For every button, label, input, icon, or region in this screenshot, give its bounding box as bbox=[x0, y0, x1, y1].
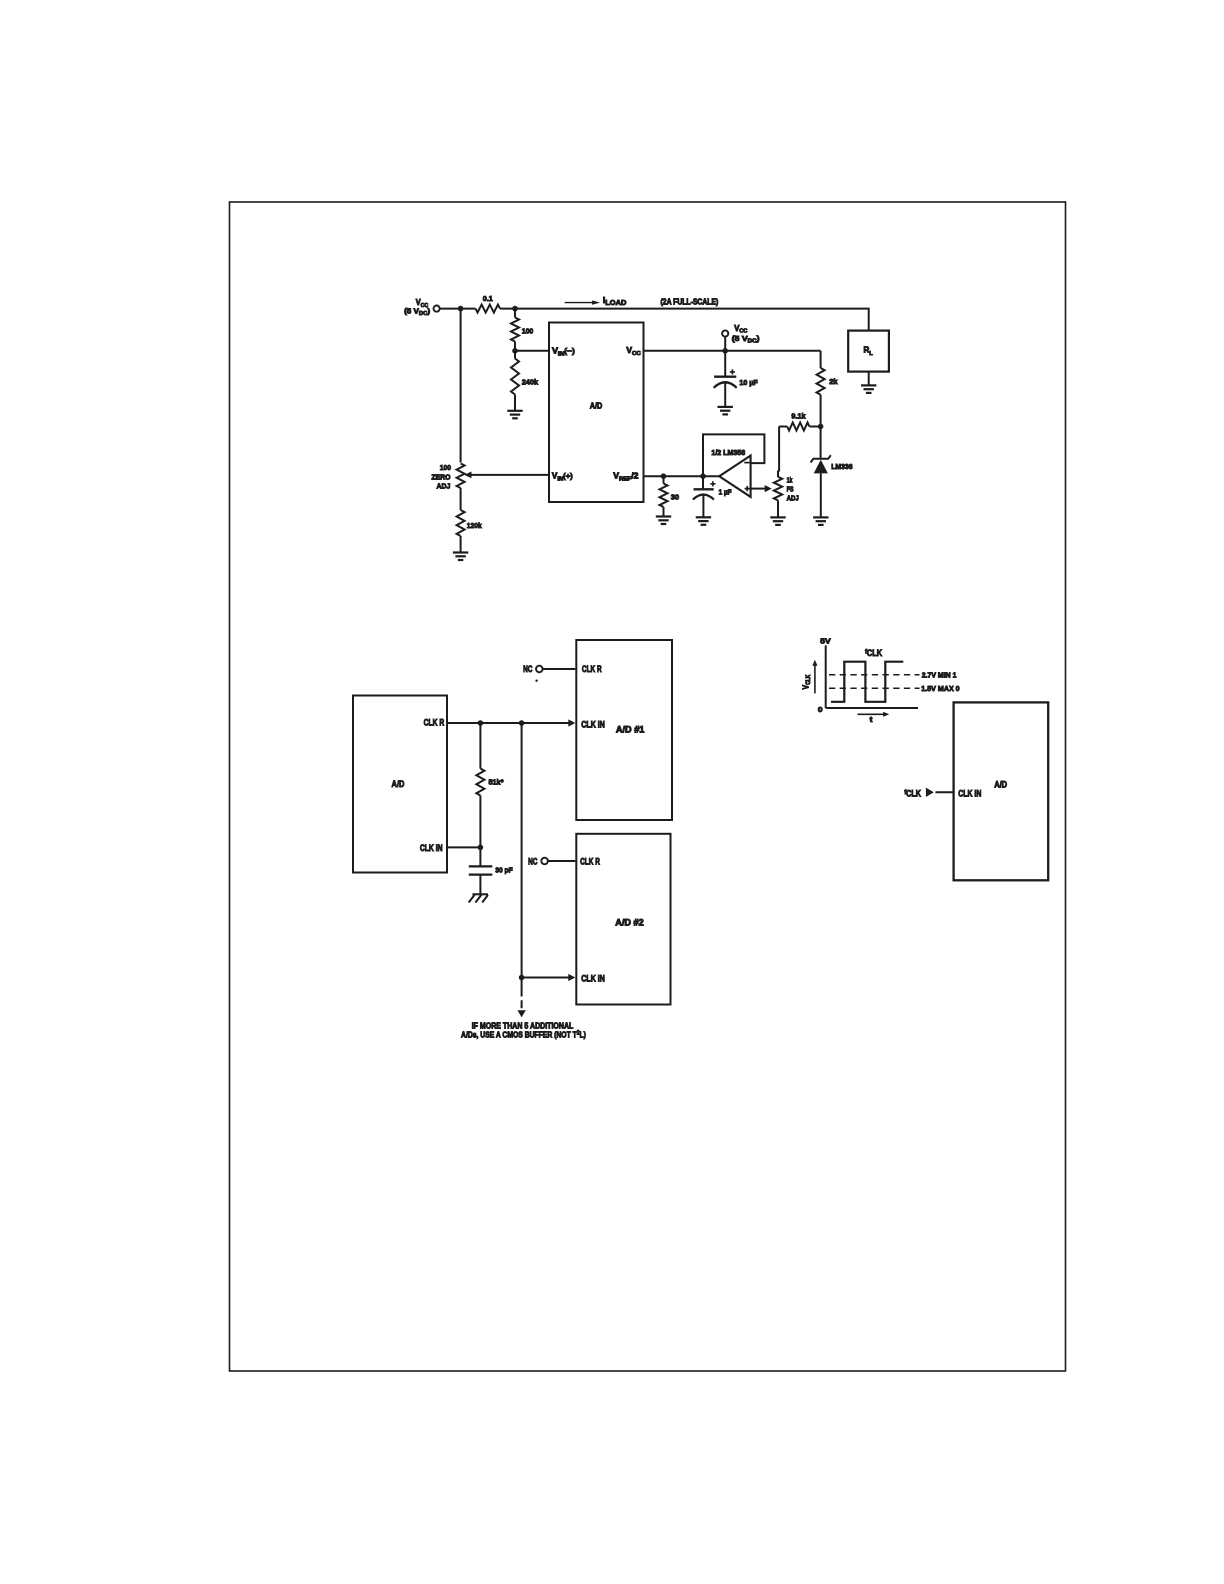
svg-text:CLK IN: CLK IN bbox=[581, 720, 605, 730]
svg-text:LM336: LM336 bbox=[831, 464, 852, 471]
svg-text:51k*: 51k* bbox=[489, 777, 504, 786]
svg-text:NC: NC bbox=[523, 664, 533, 674]
wire op-amp output to VREF/2 bbox=[644, 475, 720, 477]
svg-text:CLK IN: CLK IN bbox=[420, 843, 443, 853]
svg-text:VCLK: VCLK bbox=[801, 675, 812, 690]
svg-text:100: 100 bbox=[522, 326, 534, 335]
ground under 30 bbox=[656, 517, 671, 525]
svg-text:ADJ: ADJ bbox=[787, 495, 799, 503]
axis label VCLK with arrow bbox=[801, 660, 818, 694]
ground under 240k bbox=[507, 411, 522, 419]
node VREF/2 / 30 bbox=[661, 473, 667, 479]
chassis ground under 30 pF bbox=[469, 894, 488, 902]
potentiometer 100 ZERO ADJ bbox=[431, 462, 471, 490]
terminal VCC supply (5 VDC) bbox=[404, 298, 440, 317]
capacitor 1 uF bbox=[693, 476, 732, 517]
label (2A FULL-SCALE) bbox=[661, 297, 719, 307]
svg-text:100: 100 bbox=[440, 462, 451, 472]
threshold line 1.5V MAX 0 bbox=[829, 684, 960, 693]
svg-text:120k: 120k bbox=[467, 520, 483, 530]
resistor 2k bbox=[817, 351, 839, 427]
svg-text:A/D: A/D bbox=[994, 780, 1007, 790]
waveform axes bbox=[818, 637, 918, 714]
svg-text:1/2 LM358: 1/2 LM358 bbox=[711, 448, 745, 457]
svg-text:A/D #2: A/D #2 bbox=[615, 917, 644, 927]
resistor 0.1 (current shunt) bbox=[476, 294, 501, 313]
svg-text:NC: NC bbox=[528, 856, 538, 866]
wire to VIN(-) pin bbox=[515, 350, 549, 352]
ground under 1uF bbox=[696, 517, 711, 525]
op-amp 1/2 LM358 bbox=[711, 448, 750, 497]
ground under 10uF bbox=[718, 407, 733, 415]
terminal VCC (5 VDC) bypass bbox=[722, 324, 760, 351]
node clock bus to A/D #2 bbox=[519, 975, 525, 981]
potentiometer 1k FS ADJ bbox=[774, 471, 799, 518]
svg-text:0: 0 bbox=[818, 706, 823, 715]
node VCC rail / zero-adj branch bbox=[458, 306, 464, 312]
svg-text:2.7V MIN 1: 2.7V MIN 1 bbox=[922, 670, 957, 679]
wire VCC left rail to zero-adj pot bbox=[460, 309, 462, 463]
resistor 240k bbox=[511, 351, 539, 411]
dashed clock bus continuation bbox=[517, 978, 525, 1018]
ground under RL bbox=[861, 385, 876, 393]
svg-text:VIN(−): VIN(−) bbox=[552, 346, 575, 358]
zener diode LM336 bbox=[811, 427, 853, 518]
ground under LM336 bbox=[813, 517, 828, 525]
node CLK R / 51k bbox=[478, 720, 484, 726]
wire 9.1k to FS ADJ pot bbox=[778, 427, 779, 471]
svg-text:A/D: A/D bbox=[590, 401, 603, 411]
NC terminal at A/D #2 CLK R bbox=[528, 856, 575, 866]
capacitor 30 pF bbox=[469, 847, 513, 894]
clock waveform fCLK bbox=[831, 648, 903, 702]
svg-text:A/Ds, USE A CMOS BUFFER (NOT T: A/Ds, USE A CMOS BUFFER (NOT T2L) bbox=[461, 1030, 586, 1040]
wire bus to A/D #2 CLK IN bbox=[522, 974, 576, 981]
wire VCC pin to 2k bbox=[644, 350, 821, 352]
A/D master block bbox=[353, 696, 447, 873]
resistor 100 (input divider) bbox=[511, 309, 533, 351]
A/D block with clock input bbox=[954, 702, 1049, 880]
svg-text:CLK R: CLK R bbox=[580, 856, 600, 866]
wire zero-adj wiper to VIN(+) bbox=[472, 474, 550, 476]
node CLK IN / 30 pF bbox=[478, 845, 484, 851]
node 2k / 9.1k / LM336 junction bbox=[818, 424, 824, 430]
svg-text:CLK IN: CLK IN bbox=[581, 974, 605, 984]
A/D #2 block bbox=[576, 834, 670, 1005]
note: CMOS buffer text bbox=[461, 1021, 586, 1040]
resistor 9.1k bbox=[779, 412, 821, 431]
load resistor RL bbox=[848, 331, 889, 386]
NC terminal at A/D #1 CLK R bbox=[523, 664, 575, 682]
svg-text:VCC: VCC bbox=[626, 345, 641, 357]
pin label VCC bbox=[626, 345, 641, 357]
node VIN(-) junction bbox=[512, 348, 518, 354]
ground under 120k bbox=[453, 553, 468, 561]
resistor 51k* bbox=[476, 723, 503, 847]
ground under FS ADJ pot bbox=[770, 517, 785, 525]
svg-text:1k: 1k bbox=[787, 477, 793, 485]
threshold line 2.7V MIN 1 bbox=[829, 670, 956, 679]
A/D #1 block bbox=[576, 640, 672, 820]
wire feedback loop bbox=[703, 434, 764, 476]
axis label t with arrow bbox=[858, 712, 890, 724]
wire CLK R to A/D #1 CLK IN bbox=[447, 719, 575, 726]
node VCC bypass junction bbox=[722, 348, 728, 354]
svg-text:30: 30 bbox=[671, 492, 679, 501]
svg-text:A/D #1: A/D #1 bbox=[616, 724, 645, 734]
svg-text:CLK R: CLK R bbox=[582, 664, 602, 674]
pin label VREF/2 bbox=[613, 471, 639, 483]
svg-text:VIN(+): VIN(+) bbox=[552, 472, 573, 483]
svg-text:t: t bbox=[870, 715, 873, 724]
svg-text:ADJ: ADJ bbox=[437, 481, 451, 490]
svg-text:ILOAD: ILOAD bbox=[603, 296, 626, 306]
svg-text:(5 VDC): (5 VDC) bbox=[404, 307, 430, 317]
wire VCC terminal to 0.1 resistor bbox=[440, 308, 476, 310]
node op-amp output / 1uF bbox=[700, 473, 706, 479]
svg-text:5V: 5V bbox=[820, 637, 831, 646]
svg-text:fCLK: fCLK bbox=[865, 648, 882, 658]
node 0.1 / 100 junction bbox=[512, 306, 518, 312]
pin label VIN(+) bbox=[552, 472, 573, 483]
svg-text:RL: RL bbox=[864, 346, 874, 357]
A/D converter block U1 bbox=[549, 323, 644, 503]
wire op-amp + input to pot wiper bbox=[751, 485, 772, 492]
node CLK R / clock bus bbox=[519, 720, 525, 726]
svg-text:1 µF: 1 µF bbox=[719, 489, 733, 497]
pin label VIN(-) bbox=[552, 346, 575, 358]
svg-text:1.5V MAX 0: 1.5V MAX 0 bbox=[921, 684, 959, 693]
wire top rail to RL bbox=[500, 309, 869, 331]
svg-text:0.1: 0.1 bbox=[483, 294, 493, 303]
wire clock bus vertical bbox=[521, 723, 523, 978]
current arrow ILOAD bbox=[565, 296, 627, 306]
svg-text:30 pF: 30 pF bbox=[495, 865, 513, 875]
wire CLK IN to 51k bbox=[447, 846, 480, 848]
fCLK input terminal bbox=[904, 788, 953, 799]
svg-text:A/D: A/D bbox=[392, 779, 405, 789]
capacitor 10 uF bbox=[714, 351, 758, 407]
svg-text:fCLK: fCLK bbox=[904, 789, 921, 799]
svg-text:FS: FS bbox=[787, 486, 795, 494]
svg-text:10 µF: 10 µF bbox=[739, 378, 758, 387]
svg-text:CLK IN: CLK IN bbox=[958, 789, 981, 799]
svg-text:CLK R: CLK R bbox=[424, 718, 445, 728]
svg-text:240k: 240k bbox=[522, 377, 539, 386]
resistor 30 bbox=[660, 476, 680, 516]
svg-text:(5 VDC): (5 VDC) bbox=[732, 334, 760, 344]
svg-text:9.1k: 9.1k bbox=[791, 412, 806, 421]
svg-text:VCC: VCC bbox=[734, 324, 747, 335]
svg-text:(2A FULL-SCALE): (2A FULL-SCALE) bbox=[661, 297, 719, 307]
svg-text:2k: 2k bbox=[829, 377, 838, 386]
resistor 120k bbox=[457, 488, 483, 553]
svg-text:VREF/2: VREF/2 bbox=[613, 471, 639, 483]
